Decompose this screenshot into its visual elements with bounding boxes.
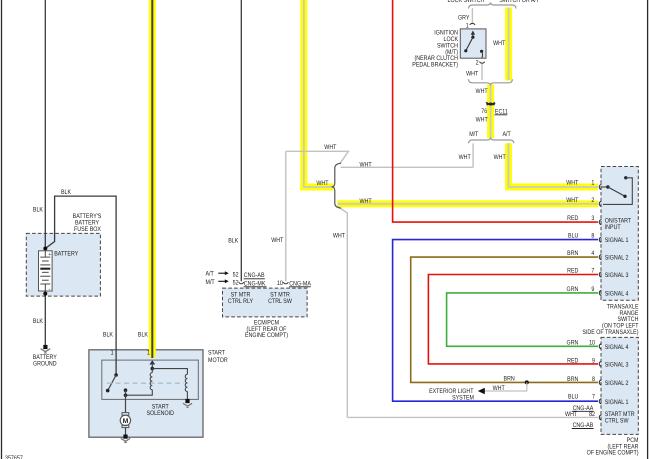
arrow: yellow wire entering solenoid bbox=[149, 360, 155, 364]
svg-text:CNG-AB: CNG-AB bbox=[244, 272, 265, 279]
svg-text:SOLENOID: SOLENOID bbox=[146, 410, 174, 417]
svg-text:CTRL SW: CTRL SW bbox=[605, 417, 629, 424]
svg-text:WHT: WHT bbox=[359, 162, 371, 169]
svg-text:SIDE OF TRANSAXLE): SIDE OF TRANSAXLE) bbox=[582, 329, 638, 336]
node: solenoid coil top bbox=[151, 367, 155, 371]
wire highlight: WHT horizontal into connector y=187 bbox=[300, 184, 333, 191]
wire: WHT center line x=303.8 bbox=[303, 0, 305, 187]
wire: coil2 bottom to ground bbox=[186, 392, 188, 400]
svg-text:A/T: A/T bbox=[206, 271, 214, 278]
wire: BLK to ECM pin 52 bbox=[240, 0, 242, 281]
box: battery fuse box (dashed) bbox=[26, 233, 100, 296]
svg-text:GRN: GRN bbox=[567, 340, 579, 347]
svg-text:52: 52 bbox=[233, 280, 239, 287]
switch: solenoid contact arm bbox=[106, 373, 127, 392]
svg-text:9: 9 bbox=[592, 357, 595, 364]
svg-text:10: 10 bbox=[589, 340, 595, 347]
svg-text:WHT: WHT bbox=[476, 117, 488, 124]
box: transaxle range switch (dashed) bbox=[601, 167, 638, 301]
wire: WHT from ignition pin 2 to merge brace bbox=[481, 63, 483, 80]
svg-text:7: 7 bbox=[591, 268, 594, 275]
wire highlight: BLK/YEL vertical to start motor bbox=[149, 0, 156, 357]
ground: battery ground bbox=[41, 345, 51, 353]
switch: ignition lock switch arm bbox=[464, 31, 483, 58]
svg-text:FUSE BOX: FUSE BOX bbox=[74, 226, 101, 233]
svg-text:INPUT: INPUT bbox=[605, 224, 621, 231]
battery symbol bbox=[39, 251, 53, 293]
connector: pin 2 hook (below box) bbox=[480, 62, 485, 64]
wire highlight: WHT horizontal connector to transaxle pin2 bbox=[337, 200, 598, 207]
wire: WHT horizontal y=167.3 connector to M/T branch bbox=[341, 166, 474, 168]
wire: WHT center of yellow x=508.6 bbox=[508, 8, 510, 81]
wire: RED from top to transaxle pin 3 bbox=[393, 0, 598, 222]
svg-text:BRN: BRN bbox=[504, 375, 516, 382]
wire: GRY to ignition lock switch pin 1 bbox=[471, 8, 473, 24]
wire: coil1 bottom to motor feed bbox=[126, 390, 153, 395]
wire: WHT M/T branch down from split brace bbox=[472, 143, 474, 167]
svg-text:1: 1 bbox=[111, 350, 114, 357]
svg-text:SIGNAL 2: SIGNAL 2 bbox=[605, 254, 629, 261]
svg-text:SIGNAL 2: SIGNAL 2 bbox=[605, 380, 629, 387]
wire: WHT diagonal from connector down bbox=[338, 207, 347, 418]
svg-text:BLK: BLK bbox=[103, 332, 114, 339]
wire: motor feed down bbox=[125, 390, 127, 412]
svg-text:9: 9 bbox=[591, 286, 594, 293]
connector hooks pins 1,2,3,8,4,7,9 bbox=[599, 184, 601, 295]
svg-text:357657: 357657 bbox=[5, 455, 23, 459]
node: motor feed junction bbox=[124, 393, 128, 397]
svg-text:WHT: WHT bbox=[566, 197, 578, 204]
svg-text:WHT: WHT bbox=[565, 411, 577, 418]
wire highlight: WHT horizontal to transaxle pin1 bbox=[505, 184, 598, 191]
node: battery positive junction bbox=[43, 247, 47, 251]
svg-text:SWITCH OR A/T: SWITCH OR A/T bbox=[499, 0, 539, 4]
wire: BLU transaxle pin 8 to PCM pin 7 bbox=[393, 240, 598, 402]
svg-text:WHT: WHT bbox=[271, 237, 283, 244]
brace: top (from lock switch / switch or A/T) bbox=[469, 2, 517, 8]
connector: ECM pin 52 hook bbox=[239, 282, 244, 284]
svg-text:BLU: BLU bbox=[568, 394, 579, 401]
svg-text:7: 7 bbox=[592, 394, 595, 401]
svg-text:WHT: WHT bbox=[476, 88, 488, 95]
svg-text:SIGNAL 3: SIGNAL 3 bbox=[605, 272, 629, 279]
connector: pin 1 hook (above box) bbox=[470, 23, 475, 25]
svg-text:PEDAL BRACKET): PEDAL BRACKET) bbox=[412, 62, 458, 69]
svg-text:10: 10 bbox=[277, 280, 283, 287]
arrow: A/T row bbox=[218, 272, 225, 274]
svg-text:WHT: WHT bbox=[359, 198, 371, 205]
svg-text:BLU: BLU bbox=[568, 233, 579, 240]
connector: EC11 bbox=[486, 102, 495, 104]
box: start motor outer bbox=[89, 350, 203, 437]
svg-text:A/T: A/T bbox=[502, 131, 510, 138]
wire: WHT center of A/T branch bbox=[509, 143, 599, 187]
svg-text:WHT: WHT bbox=[324, 144, 336, 151]
svg-text:1: 1 bbox=[591, 179, 594, 186]
wire: BLK from start motor pin 1 up/left to battery bbox=[45, 196, 116, 350]
svg-text:GROUND: GROUND bbox=[33, 361, 57, 368]
svg-text:+: + bbox=[48, 252, 51, 258]
svg-text:SIGNAL 4: SIGNAL 4 bbox=[605, 290, 629, 297]
wire: GRN transaxle pin 9 to PCM pin 10 bbox=[447, 293, 598, 346]
svg-text:BRN: BRN bbox=[567, 376, 579, 383]
svg-text:WHT: WHT bbox=[493, 40, 505, 47]
dashed mechanical link bbox=[107, 382, 184, 384]
svg-text:CTRL RLY: CTRL RLY bbox=[228, 298, 254, 305]
svg-text:BATTERY: BATTERY bbox=[54, 251, 79, 258]
svg-text:START: START bbox=[208, 349, 225, 356]
svg-text:WHT: WHT bbox=[493, 385, 505, 392]
svg-text:3: 3 bbox=[591, 215, 594, 222]
svg-text:CNG-MA: CNG-MA bbox=[289, 280, 311, 287]
svg-text:52: 52 bbox=[233, 271, 239, 278]
svg-text:RED: RED bbox=[567, 357, 579, 364]
svg-text:BLK: BLK bbox=[228, 237, 239, 244]
wire: WHT horizontal y=151.3 to inline connector bbox=[286, 151, 349, 164]
svg-text:BLK: BLK bbox=[33, 206, 44, 213]
connector: inline harness connector bbox=[332, 163, 341, 208]
svg-text:SYSTEM: SYSTEM bbox=[452, 395, 474, 402]
svg-text:1: 1 bbox=[466, 22, 469, 29]
svg-text:-: - bbox=[49, 287, 51, 293]
arrow: M/T row bbox=[218, 280, 225, 282]
svg-text:SIGNAL 3: SIGNAL 3 bbox=[605, 362, 629, 369]
brace: merge of M/T and A/T start feeds bbox=[468, 79, 512, 85]
wire highlight: WHT vertical to merge brace x=508.6 bbox=[505, 8, 512, 81]
wire highlight: combined WHT EC11 vertical x=490.6 bbox=[487, 85, 494, 139]
svg-text:BLK: BLK bbox=[33, 318, 44, 325]
wire: RED transaxle pin 7 to PCM pin 9 bbox=[428, 275, 598, 364]
wire: WHT horizontal to PCM pin 82 bbox=[347, 416, 598, 418]
wire: WHT center line horizontal y=187 bbox=[303, 186, 333, 188]
svg-text:MOTOR: MOTOR bbox=[208, 357, 228, 364]
motor M bbox=[120, 413, 130, 428]
node: BRN junction to exterior light bbox=[525, 380, 529, 384]
box: start motor inner bbox=[102, 360, 199, 399]
svg-text:GRY: GRY bbox=[458, 15, 470, 22]
wire: to pull-in winding bbox=[152, 369, 187, 375]
node: below battery bbox=[43, 292, 47, 296]
coil: hold-in winding bbox=[150, 373, 152, 390]
svg-text:CTRL SW: CTRL SW bbox=[268, 298, 292, 305]
svg-text:SIGNAL 1: SIGNAL 1 bbox=[605, 399, 629, 406]
wire: motor to ground bbox=[125, 428, 127, 435]
svg-text:BRN: BRN bbox=[567, 250, 579, 257]
svg-text:WHT: WHT bbox=[459, 154, 471, 161]
svg-text:M/T: M/T bbox=[469, 131, 478, 138]
svg-text:RED: RED bbox=[567, 268, 579, 275]
svg-text:4: 4 bbox=[591, 250, 594, 257]
svg-text:WHT: WHT bbox=[566, 179, 578, 186]
wire highlight: A/T branch vertical x=508.5 bbox=[505, 143, 512, 190]
svg-text:SIGNAL 4: SIGNAL 4 bbox=[605, 344, 629, 351]
svg-text:ENGINE COMPT): ENGINE COMPT) bbox=[245, 332, 288, 339]
svg-text:2: 2 bbox=[476, 60, 479, 67]
svg-text:76: 76 bbox=[481, 108, 487, 115]
border left bbox=[1, 0, 3, 459]
svg-text:SIGNAL 1: SIGNAL 1 bbox=[605, 237, 629, 244]
svg-text:WHT: WHT bbox=[333, 233, 345, 240]
wire highlight: WHT vertical x=303.8 bbox=[300, 0, 307, 191]
svg-text:M/T: M/T bbox=[206, 279, 215, 286]
arrow: to exterior light system bbox=[478, 388, 485, 394]
svg-text:EC11: EC11 bbox=[495, 108, 508, 115]
wire: BLK pin1 into solenoid switch bbox=[115, 350, 117, 375]
svg-text:8: 8 bbox=[592, 376, 595, 383]
ground: solenoid ground bbox=[183, 399, 192, 407]
switch: transaxle range switch internals bbox=[602, 176, 633, 204]
svg-text:BLK: BLK bbox=[138, 332, 149, 339]
wire: WHT center of pin2 yellow row bbox=[338, 203, 599, 205]
svg-text:WHT: WHT bbox=[466, 71, 478, 78]
wire: battery positive BLK from top bbox=[44, 0, 46, 249]
wire: BRN transaxle pin 4 to PCM pin 8 bbox=[411, 257, 598, 382]
coil: pull-in winding bbox=[185, 374, 187, 391]
connector: ECM pin 10 hook bbox=[283, 282, 288, 284]
svg-text:CNG-MK: CNG-MK bbox=[244, 280, 266, 287]
box: ECM/PCM (dashed) bbox=[223, 288, 308, 317]
wire: BLK center of yellow to start motor bbox=[151, 0, 153, 358]
wire: WHT to exterior light system bbox=[485, 382, 527, 391]
svg-text:LOCK SWITCH: LOCK SWITCH bbox=[447, 0, 484, 4]
wire: battery negative down to ground bbox=[44, 291, 46, 345]
svg-text:GRN: GRN bbox=[567, 286, 579, 293]
svg-text:M: M bbox=[123, 418, 129, 425]
box: ignition lock switch bbox=[460, 29, 486, 58]
svg-text:2: 2 bbox=[591, 197, 594, 204]
svg-text:82: 82 bbox=[589, 411, 595, 418]
svg-text:RED: RED bbox=[567, 215, 579, 222]
wire: WHT from ECM pin 10 up bbox=[285, 151, 287, 281]
svg-text:WHT: WHT bbox=[494, 154, 506, 161]
svg-text:1: 1 bbox=[147, 350, 150, 357]
ground: start motor ground bbox=[121, 435, 130, 443]
svg-text:OF ENGINE COMPT): OF ENGINE COMPT) bbox=[587, 450, 639, 457]
svg-text:8: 8 bbox=[591, 233, 594, 240]
border right bbox=[647, 0, 649, 459]
svg-text:WHT: WHT bbox=[316, 180, 328, 187]
box: PCM (dashed) bbox=[601, 337, 638, 434]
brace: split M/T | A/T bbox=[469, 137, 514, 143]
wire: WHT center of combined yellow x=490.6 bbox=[490, 85, 492, 138]
svg-text:BLK: BLK bbox=[61, 189, 72, 196]
